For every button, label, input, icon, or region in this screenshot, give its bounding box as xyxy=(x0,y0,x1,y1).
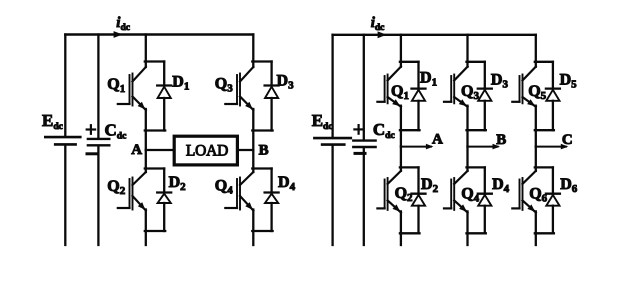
transistor Q2 xyxy=(118,172,146,211)
wire: branch from leg to D4 xyxy=(252,167,271,169)
wire: D2 return to leg xyxy=(145,230,165,232)
node A wire (left) xyxy=(146,149,173,151)
source E_dc negative plate (right) xyxy=(322,143,344,146)
wire: D4 return to leg xyxy=(467,232,486,234)
wire: branch from leg to D5 xyxy=(535,61,553,63)
wire: E_dc top lead (left) xyxy=(64,35,66,136)
diode D6 xyxy=(546,167,560,233)
wire: E_dc bottom lead (left) xyxy=(64,146,66,245)
label - polarity (left) xyxy=(87,152,96,155)
wire: E_dc top lead (right) xyxy=(331,35,333,137)
svg-text:C: C xyxy=(562,132,573,148)
capacitor C_dc plates (left) xyxy=(88,139,109,145)
wire: D2 return to leg xyxy=(400,232,420,234)
transistor Q3 xyxy=(444,67,468,107)
wire: Q2 emitter lead xyxy=(400,211,402,245)
transistor Q1 xyxy=(118,67,146,110)
diode D4 xyxy=(265,169,279,232)
wire: branch from leg to D3 xyxy=(252,60,271,62)
source E_dc positive plate (left) xyxy=(45,136,80,139)
transistor Q3 xyxy=(225,67,253,110)
wire: C_dc top lead (left) xyxy=(97,35,99,138)
diode D1 xyxy=(157,62,171,131)
wire: Q6 emitter lead xyxy=(535,211,537,245)
diode D4 xyxy=(478,167,492,233)
wire: Q1 emitter lead xyxy=(400,106,402,147)
svg-text:B: B xyxy=(259,143,269,159)
wire: branch from leg to D2 xyxy=(145,167,164,169)
wire: C_dc bottom lead (left) xyxy=(97,147,99,246)
transistor Q2 xyxy=(377,171,401,213)
wire: D1 return to leg xyxy=(145,129,165,131)
wire: branch from leg to D4 xyxy=(467,166,485,168)
output arrow phase B xyxy=(493,144,501,150)
diode D2 xyxy=(157,169,171,232)
output arrow phase A xyxy=(426,144,434,150)
node A output wire xyxy=(401,146,431,148)
wire: Q3 emitter lead xyxy=(252,109,254,150)
transistor Q6 xyxy=(512,171,536,213)
diode D5 xyxy=(546,62,560,130)
load box xyxy=(174,136,237,165)
wire: branch from leg to D6 xyxy=(535,166,553,168)
wire: Q2 collector feed xyxy=(145,150,147,172)
wire: Q2 collector feed xyxy=(400,147,402,171)
output arrow phase C xyxy=(561,144,569,150)
label - polarity (right) xyxy=(355,152,365,155)
wire: branch from leg to D3 xyxy=(467,61,485,63)
wire: Q4 collector feed xyxy=(466,147,468,171)
wire: C_dc bottom lead (right) xyxy=(363,148,365,245)
wire: D6 return to leg xyxy=(535,232,554,234)
wire: Q1 collector feed xyxy=(145,35,147,68)
svg-text:A: A xyxy=(432,131,443,147)
diode D3 xyxy=(478,62,492,130)
current arrow i_dc (left) xyxy=(114,31,123,38)
wire: D4 return to leg xyxy=(252,230,272,232)
wire: Q3 collector feed xyxy=(252,35,254,68)
capacitor C_dc plates (right) xyxy=(353,141,375,147)
source E_dc positive plate (right) xyxy=(314,137,350,140)
wire: Q2 emitter lead xyxy=(145,210,147,246)
svg-text:LOAD: LOAD xyxy=(186,142,228,159)
diode D1 xyxy=(412,62,426,130)
wire: D1 return to leg xyxy=(400,129,420,131)
wire: D5 return to leg xyxy=(535,129,554,131)
wire: D3 return to leg xyxy=(467,129,486,131)
transistor Q5 xyxy=(512,67,536,107)
wire: Q5 emitter lead xyxy=(535,106,537,147)
node B output wire xyxy=(468,146,498,148)
svg-text:A: A xyxy=(131,142,142,158)
diode D2 xyxy=(412,167,426,233)
source E_dc negative plate (left) xyxy=(55,143,75,146)
wire: D3 return to leg xyxy=(252,129,272,131)
wire: Q4 collector feed xyxy=(252,150,254,172)
wire: E_dc bottom lead (right) xyxy=(331,146,333,245)
wire: Q4 emitter lead xyxy=(252,210,254,246)
wire: right inverter top DC rail xyxy=(333,34,536,36)
wire: Q5 collector feed xyxy=(535,35,537,67)
wire: Q1 collector feed xyxy=(400,35,402,67)
wire: branch from leg to D1 xyxy=(145,60,164,62)
svg-text:B: B xyxy=(496,132,506,148)
wire: Q3 collector feed xyxy=(466,35,468,67)
wire: Q1 emitter lead xyxy=(145,109,147,150)
node C output wire xyxy=(536,146,566,148)
current arrow i_dc (right) xyxy=(378,31,387,38)
transistor Q4 xyxy=(225,172,253,211)
transistor Q1 xyxy=(377,67,401,107)
label + polarity (right) xyxy=(354,125,362,134)
wire: Q3 emitter lead xyxy=(466,106,468,147)
wire: C_dc top lead (right) xyxy=(363,35,365,140)
wire: Q6 collector feed xyxy=(535,147,537,171)
wire: left bridge top DC rail xyxy=(65,33,253,35)
label + polarity (left) xyxy=(87,125,95,134)
diode D3 xyxy=(265,62,279,131)
node B wire (left) xyxy=(239,149,253,151)
wire: branch from leg to D1 xyxy=(400,61,419,63)
wire: Q4 emitter lead xyxy=(466,211,468,245)
transistor Q4 xyxy=(444,171,468,213)
wire: branch from leg to D2 xyxy=(400,166,419,168)
